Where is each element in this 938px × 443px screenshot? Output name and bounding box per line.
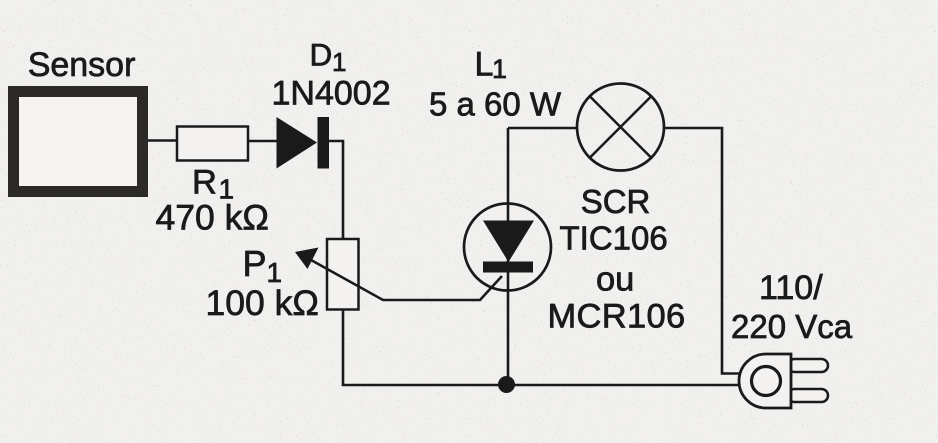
bottom wire (342, 384, 740, 387)
resistor R1 (156, 127, 269, 238)
svg-text:L: L (475, 46, 494, 84)
wire lamp to right rail (663, 128, 740, 374)
svg-text:470 kΩ: 470 kΩ (156, 198, 269, 238)
svg-text:D: D (310, 37, 333, 73)
diode D1 (272, 37, 391, 169)
svg-text:5 a 60 W: 5 a 60 W (429, 86, 562, 123)
potentiometer wiper arrow and gate wire (295, 248, 502, 301)
wire node to lamp (508, 127, 578, 130)
svg-text:1: 1 (332, 47, 346, 77)
wire R1 to D1 (248, 140, 278, 143)
svg-text:Sensor: Sensor (28, 46, 136, 84)
svg-text:TIC106: TIC106 (560, 220, 668, 257)
wire P1 bottom down (342, 309, 345, 386)
lamp L1 (429, 46, 664, 171)
svg-text:1N4002: 1N4002 (272, 75, 391, 113)
AC plug 110/220 Vca (731, 269, 853, 408)
svg-text:100 kΩ: 100 kΩ (206, 283, 319, 323)
svg-text:P: P (243, 243, 267, 284)
potentiometer P1 (206, 239, 359, 323)
svg-text:220 Vca: 220 Vca (731, 308, 853, 345)
junction node (498, 376, 515, 393)
svg-text:110/: 110/ (759, 269, 823, 307)
svg-text:1: 1 (492, 54, 507, 84)
svg-text:SCR: SCR (581, 183, 651, 220)
svg-text:MCR106: MCR106 (548, 298, 686, 336)
sensor box (14, 46, 143, 192)
SCR U1 (TIC106/MCR106) (464, 183, 685, 336)
wire sensor to R1 (148, 139, 178, 142)
wire D1 to node, down to P1 (328, 141, 343, 239)
SCR anode/cathode vertical wire (507, 128, 510, 385)
svg-text:ou: ou (596, 261, 634, 299)
svg-text:R: R (192, 164, 217, 202)
